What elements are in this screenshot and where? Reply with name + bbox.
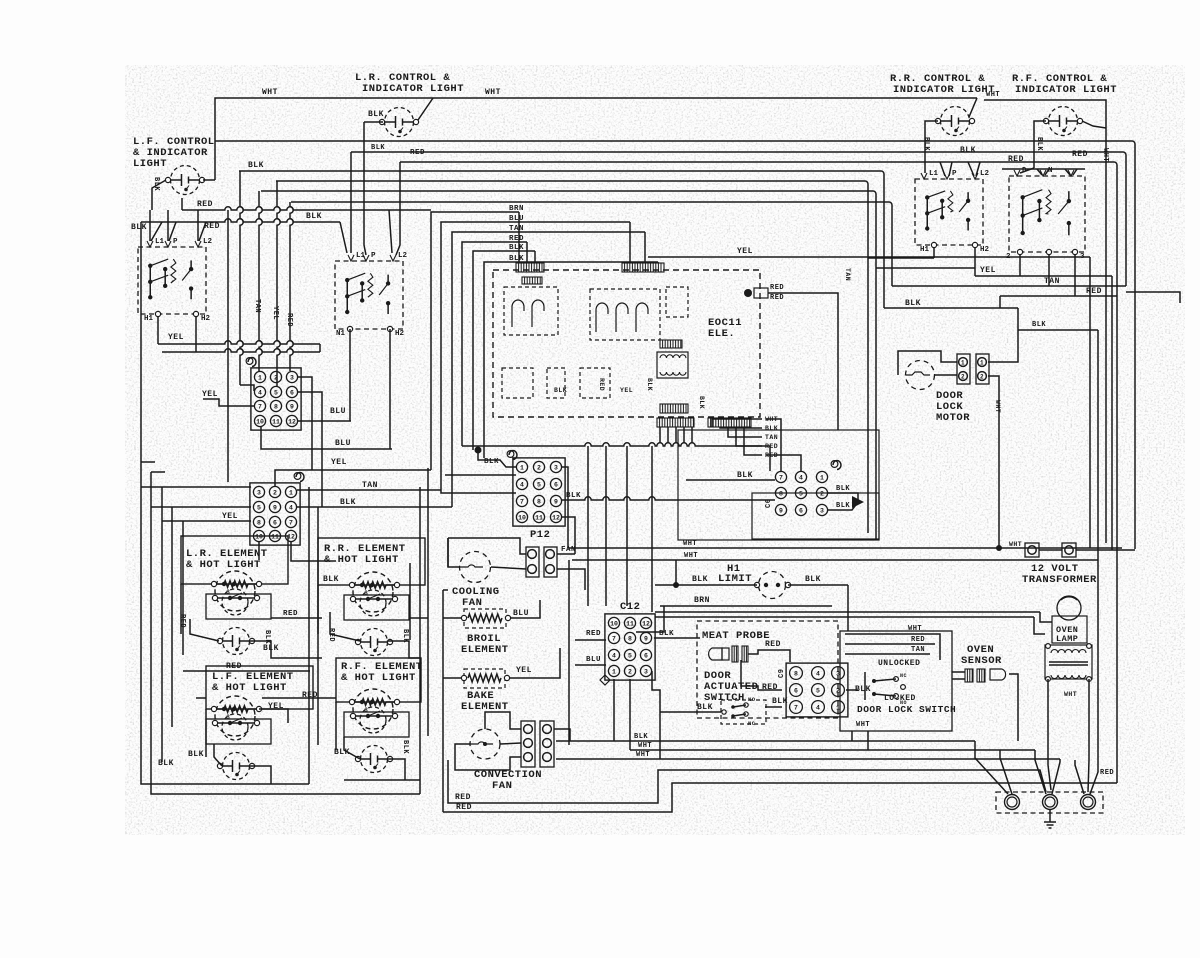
svg-text:11: 11 — [535, 514, 543, 521]
svg-text:N: N — [1048, 167, 1053, 175]
svg-text:RED: RED — [410, 149, 425, 157]
svg-text:TAN: TAN — [844, 268, 851, 281]
svg-text:9: 9 — [779, 507, 783, 514]
svg-text:1: 1 — [520, 464, 524, 471]
svg-text:3: 3 — [554, 464, 558, 471]
svg-text:BLK: BLK — [737, 471, 753, 480]
svg-text:6: 6 — [273, 519, 277, 526]
svg-text:BLK: BLK — [960, 146, 976, 155]
svg-text:6: 6 — [794, 687, 798, 694]
svg-text:WHT: WHT — [638, 742, 652, 750]
svg-text:BLK: BLK — [131, 223, 147, 232]
svg-text:NC: NC — [748, 720, 756, 727]
svg-text:BLK: BLK — [1032, 321, 1046, 329]
svg-text:RED: RED — [770, 284, 784, 292]
svg-text:YEL: YEL — [202, 390, 218, 399]
svg-text:RED: RED — [1086, 287, 1102, 296]
svg-text:5: 5 — [537, 481, 541, 488]
svg-text:7: 7 — [289, 519, 293, 526]
svg-text:TAN: TAN — [911, 646, 925, 654]
svg-text:BLK: BLK — [698, 396, 705, 409]
svg-text:UNLOCKED: UNLOCKED — [878, 659, 920, 668]
svg-text:10: 10 — [255, 533, 263, 540]
svg-text:BLK: BLK — [368, 110, 384, 119]
svg-text:BLK: BLK — [1035, 137, 1043, 151]
svg-text:11: 11 — [626, 620, 634, 627]
svg-text:RED: RED — [911, 636, 925, 644]
svg-text:H2: H2 — [980, 246, 990, 254]
svg-text:BLK: BLK — [340, 498, 356, 507]
svg-text:8: 8 — [628, 635, 632, 642]
svg-text:8: 8 — [274, 403, 278, 410]
svg-text:RED: RED — [204, 222, 220, 231]
svg-text:2: 2 — [980, 374, 984, 381]
svg-text:12: 12 — [552, 514, 560, 521]
svg-text:H1: H1 — [920, 246, 930, 254]
svg-text:TAN: TAN — [253, 299, 261, 313]
svg-text:4: 4 — [816, 704, 820, 711]
svg-text:RED: RED — [765, 640, 781, 649]
svg-text:TAN: TAN — [765, 434, 778, 441]
svg-text:INDICATOR LIGHT: INDICATOR LIGHT — [362, 83, 464, 95]
svg-text:TAN: TAN — [1044, 277, 1060, 286]
svg-text:12: 12 — [288, 418, 296, 425]
svg-text:P: P — [371, 252, 376, 260]
svg-text:RED: RED — [283, 610, 298, 618]
svg-text:3: 3 — [290, 374, 294, 381]
svg-text:RED: RED — [1100, 769, 1114, 777]
svg-text:BLU: BLU — [330, 407, 346, 416]
svg-text:10: 10 — [610, 620, 618, 627]
svg-text:WHT: WHT — [1009, 541, 1022, 548]
svg-text:BLK: BLK — [659, 630, 674, 638]
svg-text:BLK: BLK — [765, 425, 778, 432]
svg-text:L2: L2 — [203, 238, 213, 246]
svg-text:1: 1 — [612, 668, 616, 675]
svg-text:3: 3 — [644, 668, 648, 675]
svg-text:H2: H2 — [201, 315, 211, 323]
svg-text:WHT: WHT — [485, 88, 501, 97]
svg-text:3: 3 — [820, 507, 824, 514]
svg-text:ELE.: ELE. — [708, 328, 735, 340]
svg-text:2: 2 — [1006, 253, 1011, 261]
svg-text:9: 9 — [554, 498, 558, 505]
svg-text:4: 4 — [258, 389, 262, 396]
svg-text:6: 6 — [644, 652, 648, 659]
svg-text:BLK: BLK — [306, 212, 322, 221]
svg-text:11: 11 — [272, 418, 280, 425]
svg-text:9: 9 — [290, 403, 294, 410]
svg-text:BLK: BLK — [401, 740, 409, 754]
svg-text:5: 5 — [816, 687, 820, 694]
svg-text:1: 1 — [961, 360, 965, 367]
svg-text:RED: RED — [178, 614, 186, 628]
svg-text:RED: RED — [1008, 155, 1024, 164]
svg-text:& HOT LIGHT: & HOT LIGHT — [324, 554, 399, 566]
svg-text:9: 9 — [273, 504, 277, 511]
svg-text:5: 5 — [257, 504, 261, 511]
svg-text:FAN: FAN — [492, 780, 512, 792]
svg-text:8: 8 — [537, 498, 541, 505]
svg-text:LIGHT: LIGHT — [133, 158, 167, 170]
svg-text:4: 4 — [816, 670, 820, 677]
svg-text:MOTOR: MOTOR — [936, 412, 970, 424]
svg-text:6: 6 — [799, 507, 803, 514]
svg-text:& HOT LIGHT: & HOT LIGHT — [341, 672, 416, 684]
svg-text:11: 11 — [271, 533, 279, 540]
svg-text:SENSOR: SENSOR — [961, 655, 1002, 667]
svg-text:NC: NC — [900, 673, 907, 679]
svg-text:RED: RED — [285, 313, 293, 327]
svg-text:1: 1 — [258, 374, 262, 381]
svg-text:BLK: BLK — [805, 575, 821, 584]
svg-text:RED: RED — [770, 294, 784, 302]
svg-text:WHT: WHT — [1101, 148, 1109, 162]
svg-text:7: 7 — [779, 474, 783, 481]
svg-text:YEL: YEL — [222, 512, 238, 521]
svg-text:BLK: BLK — [371, 144, 385, 152]
svg-text:RED: RED — [598, 378, 605, 391]
svg-text:BLK: BLK — [248, 161, 264, 170]
svg-text:YEL: YEL — [620, 387, 633, 394]
svg-text:2: 2 — [628, 668, 632, 675]
svg-text:BLK: BLK — [509, 255, 524, 263]
svg-text:2: 2 — [961, 374, 965, 381]
svg-text:BLK: BLK — [634, 733, 648, 741]
svg-text:N1: N1 — [336, 330, 346, 338]
svg-text:BLK: BLK — [646, 378, 653, 391]
svg-text:4: 4 — [289, 504, 293, 511]
svg-text:L2: L2 — [398, 252, 408, 260]
svg-text:BLK: BLK — [836, 485, 850, 493]
svg-text:BLK: BLK — [692, 575, 708, 584]
svg-text:BRN: BRN — [509, 205, 524, 213]
svg-text:5: 5 — [799, 490, 803, 497]
svg-text:1: 1 — [820, 474, 824, 481]
svg-text:BLK: BLK — [263, 630, 271, 644]
svg-text:YEL: YEL — [516, 666, 532, 675]
svg-text:BLU: BLU — [509, 215, 524, 223]
svg-text:RED: RED — [455, 793, 471, 802]
svg-text:7: 7 — [612, 635, 616, 642]
svg-text:FAN: FAN — [462, 597, 482, 609]
svg-text:C9: C9 — [778, 669, 786, 678]
svg-text:P12: P12 — [530, 529, 550, 541]
svg-text:H1: H1 — [144, 315, 154, 323]
svg-text:BLU: BLU — [586, 656, 601, 664]
svg-text:L1: L1 — [155, 238, 165, 246]
svg-text:1: 1 — [289, 489, 293, 496]
svg-text:WHT: WHT — [684, 552, 698, 560]
svg-text:BLK: BLK — [484, 458, 499, 466]
svg-text:WHT: WHT — [994, 400, 1001, 413]
svg-text:NO: NO — [900, 700, 907, 706]
svg-text:TRANSFORMER: TRANSFORMER — [1022, 574, 1097, 586]
svg-text:2: 2 — [274, 374, 278, 381]
svg-text:4: 4 — [799, 474, 803, 481]
svg-text:WHT: WHT — [986, 91, 1000, 99]
svg-text:BLU: BLU — [513, 609, 529, 618]
svg-text:YEL: YEL — [271, 306, 279, 320]
svg-text:LIMIT: LIMIT — [718, 573, 752, 585]
svg-text:ELEMENT: ELEMENT — [461, 701, 509, 713]
svg-text:P: P — [952, 170, 957, 178]
svg-text:RED: RED — [509, 235, 524, 243]
svg-text:RED: RED — [1072, 150, 1088, 159]
svg-text:YEL: YEL — [331, 458, 347, 467]
svg-text:BLK: BLK — [922, 137, 930, 151]
svg-text:INDICATOR LIGHT: INDICATOR LIGHT — [893, 84, 995, 96]
svg-text:BLK: BLK — [836, 502, 850, 510]
svg-text:L2: L2 — [980, 170, 990, 178]
svg-text:H2: H2 — [395, 330, 405, 338]
svg-text:WHT: WHT — [1064, 691, 1077, 698]
svg-text:7: 7 — [520, 498, 524, 505]
svg-text:5: 5 — [274, 389, 278, 396]
svg-text:9: 9 — [644, 635, 648, 642]
svg-text:TAN: TAN — [362, 481, 378, 490]
svg-text:12: 12 — [642, 620, 650, 627]
svg-text:YEL: YEL — [980, 266, 996, 275]
svg-text:2: 2 — [273, 489, 277, 496]
svg-text:8: 8 — [794, 670, 798, 677]
svg-text:FAN: FAN — [561, 546, 576, 554]
svg-text:1: 1 — [980, 360, 984, 367]
svg-text:7: 7 — [258, 403, 262, 410]
svg-text:ELEMENT: ELEMENT — [461, 644, 509, 656]
svg-text:BLU: BLU — [335, 439, 351, 448]
svg-text:6: 6 — [290, 389, 294, 396]
svg-text:& HOT LIGHT: & HOT LIGHT — [212, 682, 287, 694]
svg-text:RED: RED — [586, 630, 601, 638]
svg-text:WHT: WHT — [262, 88, 278, 97]
svg-text:BLK: BLK — [188, 750, 204, 759]
svg-text:RED: RED — [456, 803, 472, 812]
svg-text:RED: RED — [226, 662, 242, 671]
svg-text:YEL: YEL — [737, 247, 753, 256]
svg-text:BLK: BLK — [323, 575, 339, 584]
svg-text:7: 7 — [794, 704, 798, 711]
svg-text:8: 8 — [257, 519, 261, 526]
svg-text:BLK: BLK — [554, 387, 567, 394]
svg-text:WHT: WHT — [683, 540, 697, 548]
svg-text:RED: RED — [197, 200, 213, 209]
svg-text:P: P — [173, 238, 178, 246]
svg-text:INDICATOR LIGHT: INDICATOR LIGHT — [1015, 84, 1117, 96]
svg-text:WHT: WHT — [908, 625, 922, 633]
svg-text:4: 4 — [520, 481, 524, 488]
svg-text:WHT: WHT — [636, 751, 650, 759]
svg-text:MEAT PROBE: MEAT PROBE — [702, 630, 770, 642]
svg-text:BRN: BRN — [694, 596, 710, 605]
svg-text:3: 3 — [1080, 253, 1085, 261]
svg-text:2: 2 — [820, 490, 824, 497]
svg-text:2: 2 — [537, 464, 541, 471]
svg-text:4: 4 — [612, 652, 616, 659]
svg-text:6: 6 — [554, 481, 558, 488]
svg-text:WHT: WHT — [856, 721, 870, 729]
svg-text:5: 5 — [628, 652, 632, 659]
svg-text:10: 10 — [518, 514, 526, 521]
svg-text:BLK: BLK — [158, 759, 174, 768]
svg-text:TAN: TAN — [509, 225, 524, 233]
svg-text:BLK: BLK — [905, 299, 921, 308]
svg-text:BLK: BLK — [697, 703, 713, 712]
svg-text:BLK: BLK — [509, 244, 524, 252]
svg-text:& HOT LIGHT: & HOT LIGHT — [186, 559, 261, 571]
svg-text:YEL: YEL — [268, 702, 284, 711]
svg-text:L1: L1 — [929, 170, 939, 178]
svg-text:8: 8 — [779, 490, 783, 497]
svg-text:NO: NO — [748, 696, 756, 703]
svg-text:C12: C12 — [620, 601, 640, 613]
svg-text:YEL: YEL — [168, 333, 184, 342]
svg-text:10: 10 — [256, 418, 264, 425]
svg-text:3: 3 — [257, 489, 261, 496]
